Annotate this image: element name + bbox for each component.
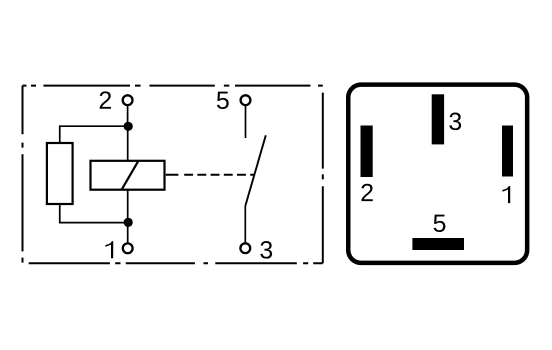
relay coil K1 body <box>91 161 165 190</box>
label terminal 3 <box>260 241 272 259</box>
boundary top side <box>23 85 323 87</box>
pin 1 blade (right) <box>502 126 513 177</box>
label terminal 5 <box>217 92 229 109</box>
boundary left side <box>22 86 24 263</box>
junction dot at node 2/coil/resistor <box>124 122 133 131</box>
pin 2 blade (left) <box>361 126 373 178</box>
wire: switch blade bottom to terminal 3 circle <box>244 206 246 244</box>
boundary right side <box>322 86 324 264</box>
label pin 1 <box>502 186 510 203</box>
pin 3 blade (top center) <box>432 94 444 144</box>
wire: top junction left to resistor branch <box>60 125 128 127</box>
wire: resistor branch down to resistor top <box>59 125 61 143</box>
wire: resistor bottom down <box>59 204 61 223</box>
label pin 5 <box>434 215 446 232</box>
label pin 3 <box>449 113 461 131</box>
mechanical linkage dashed line from coil to switch <box>166 174 255 176</box>
wire: vertical through coil from top junction to bottom junction <box>127 126 129 222</box>
terminal 2 circle <box>123 95 133 105</box>
switch blade (movable contact) <box>245 135 265 206</box>
label pin 2 <box>361 184 372 201</box>
label terminal 1 <box>105 241 113 258</box>
terminal 3 circle <box>240 243 250 253</box>
wire: bottom junction down to terminal 1 circle <box>127 223 129 244</box>
wire: resistor branch right to bottom junction <box>60 222 128 224</box>
wire: terminal 5 circle down to switch pivot <box>245 105 247 138</box>
terminal 5 circle <box>241 95 251 105</box>
wire: terminal 2 circle down to top junction <box>127 105 129 126</box>
junction dot at node 1/coil/resistor <box>124 218 133 227</box>
boundary bottom side <box>23 262 323 264</box>
relay coil diagonal stroke <box>122 161 139 190</box>
relay enclosure dash-dot boundary box <box>23 86 323 264</box>
resistor R (parallel resistor) <box>47 143 73 204</box>
relay base outline (pin view housing) <box>348 85 527 263</box>
terminal 1 circle <box>123 243 133 253</box>
label terminal 2 <box>100 91 111 108</box>
pin 5 blade (bottom center, horizontal) <box>412 238 464 250</box>
